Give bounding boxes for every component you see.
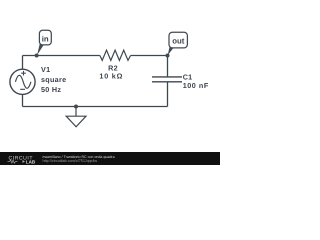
- svg-text:out: out: [172, 37, 185, 46]
- svg-text:C1: C1: [183, 72, 193, 81]
- svg-text:V1: V1: [41, 65, 50, 74]
- wire top-right horizontal: [131, 55, 168, 57]
- svg-text:in: in: [42, 34, 49, 43]
- svg-text:LAB: LAB: [26, 159, 36, 164]
- wire right vertical upper: [167, 56, 169, 77]
- footer bar: [0, 152, 220, 165]
- capacitor C1: [152, 77, 182, 82]
- label V1: [41, 65, 66, 94]
- svg-text:100 nF: 100 nF: [183, 81, 209, 90]
- voltage source V1: [10, 69, 35, 94]
- svg-text:10 kΩ: 10 kΩ: [99, 72, 123, 81]
- wire left vertical upper: [22, 56, 24, 70]
- label R2: [99, 64, 123, 81]
- wire bottom horizontal: [23, 106, 168, 108]
- svg-text:square: square: [41, 75, 66, 84]
- node out: [166, 32, 188, 57]
- node junction ground: [74, 105, 78, 109]
- label C1: [183, 72, 209, 90]
- wire left vertical lower: [22, 94, 24, 106]
- svg-text:50 Hz: 50 Hz: [41, 85, 61, 94]
- logo CIRCUIT LAB: [8, 155, 36, 164]
- resistor R2: [100, 50, 131, 60]
- wire right vertical lower: [167, 82, 169, 107]
- ground: [66, 107, 86, 127]
- wire top-left horizontal: [23, 55, 100, 57]
- node in: [35, 30, 52, 57]
- svg-text:http://circuitlab.com/c/7512qt: http://circuitlab.com/c/7512qtp4w: [43, 159, 98, 163]
